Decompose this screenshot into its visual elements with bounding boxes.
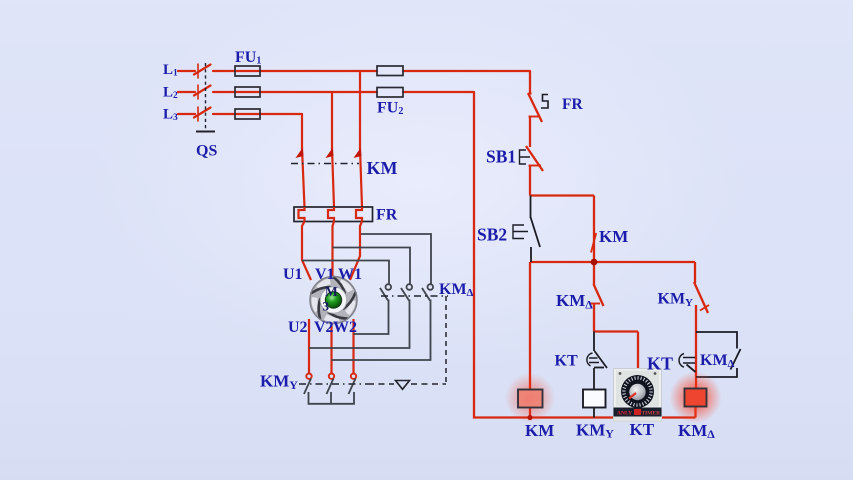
- svg-text:U2: U2: [288, 319, 308, 336]
- svg-text:TIMER: TIMER: [642, 411, 662, 417]
- svg-text:KT: KT: [555, 353, 578, 370]
- svg-text:W2: W2: [333, 319, 357, 336]
- svg-text:KM: KM: [525, 421, 554, 440]
- svg-text:KM: KM: [367, 158, 398, 178]
- svg-text:KT: KT: [630, 420, 655, 439]
- svg-text:KM: KM: [599, 227, 628, 246]
- svg-text:3: 3: [323, 299, 330, 314]
- svg-text:SB1: SB1: [486, 146, 516, 166]
- svg-text:W1: W1: [338, 266, 362, 283]
- svg-text:QS: QS: [196, 142, 217, 159]
- svg-text:FR: FR: [562, 96, 583, 113]
- svg-text:FR: FR: [376, 207, 398, 224]
- svg-text:ANLY: ANLY: [617, 411, 632, 417]
- svg-text:KT: KT: [647, 353, 673, 373]
- svg-text:V1: V1: [315, 266, 335, 283]
- svg-text:V2: V2: [314, 319, 334, 336]
- svg-text:SB2: SB2: [477, 224, 507, 244]
- svg-text:U1: U1: [283, 266, 303, 283]
- svg-text:M: M: [325, 284, 338, 299]
